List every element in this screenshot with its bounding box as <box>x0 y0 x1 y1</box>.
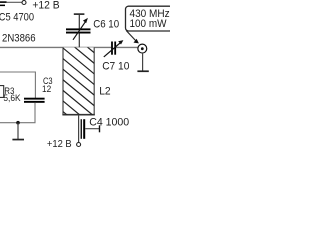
wire <box>7 1 22 3</box>
svg-text:C6 10: C6 10 <box>93 19 119 31</box>
callout box 430 MHz / 100 mW <box>126 6 173 43</box>
svg-text:C4 1000: C4 1000 <box>89 116 129 128</box>
capacitor C3 <box>24 98 45 103</box>
terminal +12V top <box>22 1 26 5</box>
svg-text:12: 12 <box>42 84 51 95</box>
wire L2 bottom to +12V <box>78 115 80 143</box>
svg-text:+12 В: +12 В <box>47 139 72 150</box>
capacitor C4 <box>81 119 101 139</box>
svg-text:L2: L2 <box>99 86 111 98</box>
wire connector to ground <box>142 53 144 71</box>
capacitor C6 (trimmer) <box>66 13 91 47</box>
ground (left) <box>12 139 24 141</box>
svg-text:2N3866: 2N3866 <box>2 32 36 44</box>
resistor R3 (cropped at left edge) <box>0 86 4 98</box>
svg-text:C7 10: C7 10 <box>102 60 129 72</box>
terminal +12V bottom <box>77 143 81 147</box>
svg-text:100 mW: 100 mW <box>130 18 168 30</box>
node junction dot <box>16 121 20 125</box>
output connector <box>138 44 147 53</box>
capacitor C7 (trimmer) <box>104 40 124 57</box>
capacitor C5 (cropped at left edge) <box>0 1 7 6</box>
ground (under connector) <box>137 70 148 72</box>
svg-text:+12 В: +12 В <box>32 0 59 12</box>
wire base line left <box>0 72 35 98</box>
wire junction to ground <box>17 123 19 139</box>
svg-text:5,6K: 5,6K <box>3 93 21 103</box>
inductor L2 (stripline, hatched box) <box>55 20 100 142</box>
wire collector line <box>0 46 111 48</box>
wire after C7 to connector <box>116 46 138 48</box>
wire C3 to bottom rail <box>0 103 35 123</box>
svg-text:C5 4700: C5 4700 <box>0 12 34 24</box>
